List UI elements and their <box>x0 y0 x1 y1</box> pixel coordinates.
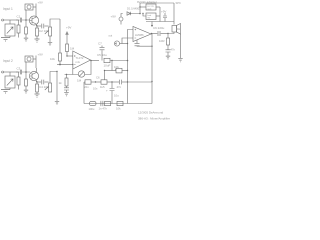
svg-text:47n: 47n <box>171 48 176 52</box>
wire power bus right <box>146 7 174 22</box>
capacitor C5 gain leg <box>64 88 69 92</box>
resistor R3 emitter <box>36 25 39 39</box>
ground G5 <box>1 90 10 94</box>
ground G3 <box>35 39 40 43</box>
node J1 terminal <box>2 19 4 21</box>
resistor R2 base <box>25 20 28 38</box>
node mix junction <box>59 64 61 66</box>
node base 2 junction <box>25 71 27 73</box>
svg-text:10uF: 10uF <box>104 64 111 68</box>
microphone MK2 <box>5 72 15 90</box>
wire to speaker <box>168 32 174 34</box>
svg-text:+9V: +9V <box>38 53 43 57</box>
capacitor C10 rail <box>90 101 97 105</box>
wire minus input <box>122 38 133 44</box>
ground G2 <box>24 38 28 42</box>
resistor R8 bias <box>66 44 75 57</box>
resistor R7 mix ch1 <box>50 19 62 65</box>
node output <box>151 33 153 35</box>
trimpot VR5 feedback <box>77 71 85 83</box>
svg-text:+: + <box>106 89 108 93</box>
wire emitter 1 <box>36 25 41 27</box>
wire x127 long drop <box>127 61 129 104</box>
transistor Q2 <box>29 68 38 82</box>
wire LM386 supply stub <box>151 22 153 27</box>
trimpot VR1 <box>25 4 36 10</box>
svg-text:8Ω: 8Ω <box>176 27 181 31</box>
ground G6 <box>24 90 28 94</box>
wire volume2 ground leg <box>56 72 58 102</box>
svg-text:10n: 10n <box>93 87 98 91</box>
jack J3 line out <box>98 34 128 61</box>
resistor R15 <box>117 101 123 105</box>
svg-text:12/3/05 DeArmond: 12/3/05 DeArmond <box>138 111 164 115</box>
svg-text:1k: 1k <box>59 81 63 85</box>
ground G10 <box>64 92 69 96</box>
svg-text:1M: 1M <box>77 79 82 83</box>
svg-text:386-A3 : Mixer/Amplifier: 386-A3 : Mixer/Amplifier <box>138 117 170 121</box>
node opamp out <box>90 60 92 62</box>
wire mix node <box>57 64 73 66</box>
capacitor C11 out <box>153 26 168 36</box>
ground G9 <box>55 101 59 104</box>
svg-text:10k: 10k <box>116 107 121 111</box>
resistor R1 <box>17 20 20 38</box>
ground G13 <box>178 58 182 62</box>
capacitor C12 bypass <box>135 40 153 46</box>
wire bottom rail <box>84 103 152 105</box>
trimpot VR3 <box>25 56 36 62</box>
capacitor C3 <box>16 67 30 75</box>
wire volume2 top <box>50 72 57 84</box>
wire base1 to trimpot <box>25 10 27 20</box>
wire emitter 2 <box>36 81 41 83</box>
wire feedback to output <box>128 81 153 83</box>
svg-text:+9V: +9V <box>161 10 166 14</box>
resistor R14 <box>105 101 111 105</box>
resistor R11 row <box>96 75 119 89</box>
potentiometer VR2 volume1 <box>45 27 52 36</box>
svg-text:+9V: +9V <box>38 1 43 5</box>
node base 1 junction <box>25 19 27 21</box>
wire speaker ground <box>180 34 182 58</box>
microphone MK1 <box>5 20 15 38</box>
wire base2 to trimpot <box>25 62 27 72</box>
svg-text:9V DC adapter: 9V DC adapter <box>137 0 157 4</box>
node power terminal <box>119 17 123 21</box>
wire input 1 <box>4 19 19 21</box>
svg-text:out: out <box>109 34 113 38</box>
wire output <box>151 33 157 35</box>
svg-text:Input 2: Input 2 <box>3 59 13 63</box>
svg-text:C6 220u: C6 220u <box>153 26 165 30</box>
wire switch feed <box>140 6 146 8</box>
speaker SP1 <box>172 3 181 34</box>
wire feedback bottom <box>65 60 92 75</box>
svg-text:22n: 22n <box>84 85 89 89</box>
svg-text:100u: 100u <box>89 107 95 111</box>
resistor R10 series <box>97 53 128 68</box>
resistor R16 zobel <box>159 34 170 50</box>
svg-text:10R: 10R <box>159 39 165 43</box>
resistor R5 base <box>25 72 28 90</box>
capacitor C4 <box>39 80 49 89</box>
node J2 terminal <box>2 71 4 73</box>
svg-text:1k5: 1k5 <box>100 85 105 89</box>
wire power riser <box>140 3 174 14</box>
wire output down <box>151 34 153 104</box>
svg-text:Input 1: Input 1 <box>3 7 13 11</box>
capacitor C2 <box>39 24 49 33</box>
power +9V rail 1 <box>35 4 37 17</box>
regulator U3 <box>142 13 160 20</box>
svg-text:D1 1N4001: D1 1N4001 <box>127 6 141 10</box>
power +9V rail 2 <box>35 56 37 69</box>
capacitor C11 rail <box>101 101 103 106</box>
wire to LM386 plus <box>128 30 134 61</box>
svg-text:SPK: SPK <box>176 1 182 5</box>
op-amp U2 LM386 <box>133 27 151 42</box>
svg-text:47n: 47n <box>117 85 122 89</box>
wire input 2 <box>4 71 19 73</box>
svg-text:mix: mix <box>76 60 81 64</box>
svg-text:C7: C7 <box>98 42 102 46</box>
wire volume1 bottom <box>49 36 51 42</box>
wire row B left drop <box>83 82 85 104</box>
switch SW1 <box>146 4 160 11</box>
resistor R6 emitter <box>36 81 39 94</box>
capacitor C1 <box>16 15 30 23</box>
ground G4 <box>48 42 52 45</box>
wire drop x112 <box>111 61 113 71</box>
wire volume1 top <box>50 19 60 27</box>
capacitor C9 electrolytic <box>106 81 119 103</box>
wire opamp out <box>91 60 100 62</box>
svg-text:batt: batt <box>148 14 152 17</box>
ground G7 <box>35 94 40 98</box>
capacitor C12 zobel <box>166 48 176 56</box>
wire power terminal <box>121 14 140 25</box>
capacitor C8 row <box>117 80 128 89</box>
potentiometer VR4 volume2 <box>45 83 52 92</box>
svg-text:10k: 10k <box>50 57 55 61</box>
transistor Q1 <box>29 16 38 26</box>
capacitor C13 row <box>84 80 101 89</box>
svg-text:+9V: +9V <box>111 15 116 19</box>
capacitor C10 filter <box>161 10 167 22</box>
ground G12 <box>166 56 170 60</box>
power arrow +9V opamp <box>65 26 71 45</box>
svg-text:1n 47n: 1n 47n <box>99 107 108 111</box>
resistor R4 <box>17 72 20 90</box>
diode D1 <box>127 6 141 15</box>
resistor R9 gain leg <box>59 74 69 88</box>
svg-text:LM386: LM386 <box>135 33 144 37</box>
potentiometer VR6 tone <box>105 65 128 73</box>
wire feedback down <box>72 65 74 75</box>
op-amp U1 <box>73 51 91 69</box>
svg-text:C6: C6 <box>96 75 100 79</box>
ground G1 <box>1 38 10 42</box>
svg-text:1M: 1M <box>70 47 75 51</box>
svg-text:+9V: +9V <box>66 26 71 30</box>
node pot row left <box>104 70 105 71</box>
node power junction <box>139 13 141 15</box>
wire x104 drop <box>104 71 106 80</box>
svg-text:10u: 10u <box>114 94 119 98</box>
node zobel <box>167 33 168 34</box>
